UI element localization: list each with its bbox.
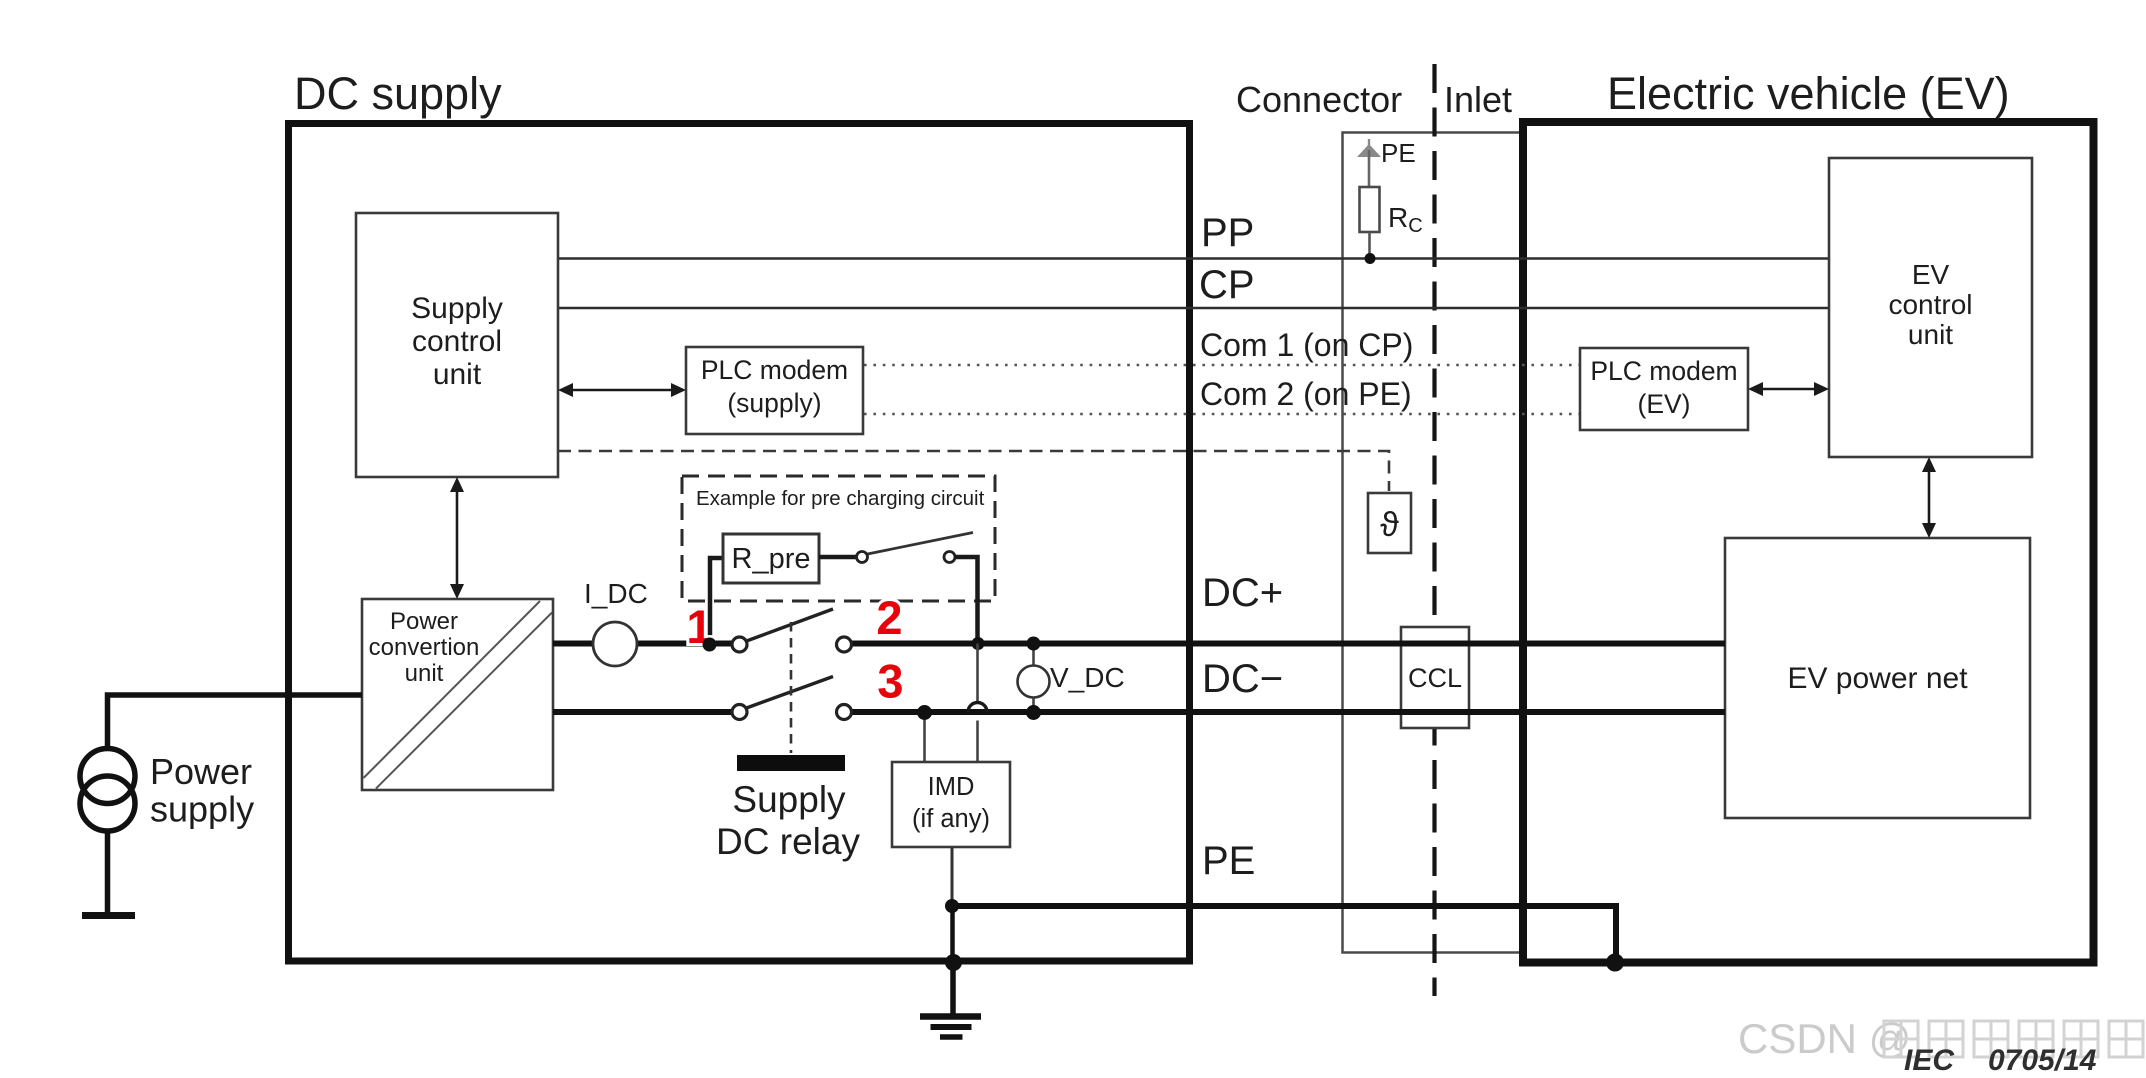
DC- bus wire	[553, 709, 733, 715]
Com 2 dotted wire	[864, 413, 1580, 416]
ground symbol	[920, 1017, 981, 1038]
EV control unit box	[1829, 158, 2032, 457]
switch 1 contacts	[732, 637, 747, 652]
earth wire to chassis	[950, 906, 955, 961]
svg-text:Connector: Connector	[1236, 79, 1402, 120]
svg-text:IEC: IEC	[1904, 1044, 1955, 1077]
svg-text:SupplyDC relay: SupplyDC relay	[716, 779, 860, 862]
converter diagonal double line	[364, 601, 541, 778]
connector/inlet dashed boundary line	[1432, 64, 1436, 996]
svg-text:0705/14: 0705/14	[1988, 1044, 2097, 1077]
resistor RC	[1360, 187, 1380, 232]
resistor R_pre	[723, 534, 819, 583]
svg-text:V_DC: V_DC	[1050, 662, 1125, 693]
watermark CJK glyphs	[1884, 1021, 2143, 1057]
connector thin outline	[1343, 133, 1520, 953]
svg-text:PE: PE	[1381, 138, 1416, 168]
switch 1 blade (DC+)	[747, 609, 834, 641]
svg-text:DC supply: DC supply	[294, 68, 502, 119]
EV enclosure box	[1523, 122, 2094, 963]
node: DC+ / IMD wire junction dot	[972, 637, 985, 650]
node: DC+ / R_pre junction dot	[703, 638, 717, 652]
power convertion unit box	[362, 599, 553, 790]
relay mechanical dashed link	[790, 622, 793, 753]
arrow: supply control to power convertion	[450, 477, 464, 599]
CCL box	[1401, 627, 1469, 728]
svg-text:Electric vehicle (EV): Electric vehicle (EV)	[1607, 68, 2010, 119]
switch 2 contacts	[732, 705, 747, 720]
svg-text:Com 1 (on CP): Com 1 (on CP)	[1200, 327, 1413, 363]
pre-charge switch contacts	[857, 552, 868, 563]
node: V_DC bottom dot	[1026, 705, 1041, 720]
power supply ground bar	[82, 912, 135, 919]
arrow: EV control unit to EV power net	[1922, 457, 1936, 538]
svg-text:ϑ: ϑ	[1380, 506, 1399, 544]
node: PP junction dot	[1365, 253, 1376, 264]
power supply source symbol	[80, 749, 135, 804]
pre charging example dashed box	[682, 476, 995, 601]
arrow: supply control to PLC modem	[558, 383, 686, 397]
svg-text:DC−: DC−	[1202, 657, 1283, 701]
node: chassis junction dot	[945, 954, 962, 971]
CP wire	[558, 307, 1829, 310]
PLC modem (supply) box	[686, 347, 863, 434]
pre-charge switch blade	[868, 533, 974, 555]
RC bottom wire	[1368, 232, 1371, 256]
svg-text:DC+: DC+	[1202, 571, 1283, 615]
pre-charge right wire	[954, 557, 978, 640]
arrow: PLC modem EV to EV control unit	[1748, 382, 1829, 396]
IMD box	[892, 762, 1010, 847]
node: DC- / IMD left wire dot	[917, 705, 932, 720]
svg-text:CP: CP	[1199, 263, 1255, 307]
supply DC relay bar	[737, 755, 845, 771]
node: V_DC top dot	[1027, 637, 1041, 651]
PE pigtail symbol	[1357, 139, 1381, 187]
power supply bottom wire	[105, 831, 111, 914]
svg-text:CCL: CCL	[1408, 663, 1462, 693]
IMD left wire	[923, 712, 926, 763]
V_DC tap wire	[1032, 644, 1035, 713]
meter V_DC circle	[1018, 666, 1050, 698]
meter I_DC circle	[593, 622, 637, 666]
svg-text:PE: PE	[1202, 839, 1255, 883]
svg-text:EV power net: EV power net	[1787, 662, 1968, 695]
supply control unit box	[356, 213, 558, 477]
earth stub	[950, 962, 956, 1014]
svg-text:Example for pre charging circu: Example for pre charging circuit	[696, 487, 985, 510]
svg-text:3: 3	[877, 655, 903, 708]
power supply top wire	[108, 695, 363, 749]
switch 2 blade (DC-)	[747, 677, 834, 709]
temperature sensor box	[1368, 493, 1411, 553]
PP wire	[558, 257, 1829, 260]
Com 1 dotted wire	[864, 364, 1580, 367]
svg-text:2: 2	[876, 591, 902, 644]
svg-text:R_pre: R_pre	[732, 543, 811, 575]
node: PE to EV chassis dot	[1606, 954, 1624, 972]
IMD earth wire	[951, 847, 954, 904]
svg-text:RC: RC	[1388, 202, 1423, 237]
node: PE junction dot	[945, 899, 959, 913]
R_pre right wire	[819, 555, 857, 560]
IMD right wire with hop	[976, 644, 979, 704]
PE bus wire	[952, 906, 1616, 958]
PLC modem (EV) box	[1580, 348, 1748, 430]
svg-text:PP: PP	[1201, 211, 1254, 255]
svg-text:Powersupply: Powersupply	[150, 751, 254, 830]
control dashed wire to sensor	[558, 451, 1389, 491]
R_pre left wire	[710, 558, 725, 640]
svg-text:Com 2 (on PE): Com 2 (on PE)	[1200, 376, 1412, 412]
DC supply enclosure box	[289, 124, 1190, 962]
EV power net box	[1725, 538, 2030, 818]
svg-text:Inlet: Inlet	[1444, 79, 1512, 120]
DC+ bus wire	[553, 641, 733, 647]
svg-text:I_DC: I_DC	[584, 578, 648, 609]
